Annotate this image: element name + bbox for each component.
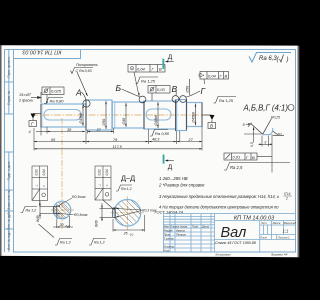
svg-text:Д: Д: [168, 54, 173, 61]
svg-text:Взам. инв. №: Взам. инв. №: [7, 190, 11, 210]
svg-text:-0,2: -0,2: [129, 233, 134, 237]
svg-text:Подп.: Подп.: [192, 225, 199, 229]
svg-text:117,5: 117,5: [113, 145, 123, 149]
svg-text:0,01: 0,01: [233, 155, 241, 160]
svg-text:Лит.: Лит.: [260, 221, 267, 225]
svg-text:Н.контр.: Н.контр.: [164, 244, 175, 248]
svg-text:2 фаски: 2 фаски: [18, 99, 34, 103]
svg-text:35: 35: [124, 232, 128, 236]
svg-text:∅45k6: ∅45k6: [79, 113, 83, 124]
svg-text:3: 3: [264, 140, 266, 144]
svg-text:∅48h8: ∅48h8: [154, 115, 158, 126]
svg-text:Ra 1,2: Ra 1,2: [121, 187, 132, 191]
svg-text:Масштаб: Масштаб: [284, 221, 297, 225]
svg-text:): ): [286, 57, 289, 63]
svg-text:Инв. № подл.: Инв. № подл.: [7, 230, 11, 250]
svg-text:Копировал: Копировал: [216, 252, 231, 256]
svg-text:Ra 1,25: Ra 1,25: [219, 98, 234, 103]
svg-text:Дата: Дата: [201, 225, 209, 229]
svg-text:0,025: 0,025: [51, 89, 62, 94]
svg-text:В: В: [252, 155, 255, 160]
svg-text:Масса: Масса: [273, 221, 281, 225]
svg-text:Ra 1,2: Ra 1,2: [94, 241, 105, 245]
svg-text:Формат А4: Формат А4: [271, 252, 288, 256]
svg-text:Петров: Петров: [176, 232, 186, 236]
svg-text:Утв.: Утв.: [164, 248, 170, 252]
svg-text:⊥: ⊥: [35, 184, 39, 187]
svg-text:8И9: 8И9: [36, 215, 40, 222]
svg-text:=: =: [105, 185, 109, 187]
svg-text:1 260...285 НВ: 1 260...285 НВ: [159, 176, 188, 181]
svg-text:Справ. №: Справ. №: [7, 90, 11, 105]
svg-text:0,04: 0,04: [105, 169, 109, 175]
svg-text:В: В: [225, 74, 228, 79]
svg-text:∅45k6: ∅45k6: [192, 112, 196, 123]
svg-text:Сталь 45 ГОСТ 1050-88: Сталь 45 ГОСТ 1050-88: [215, 241, 256, 245]
svg-text:А: А: [75, 88, 82, 98]
svg-text:R0,3max: R0,3max: [72, 195, 86, 199]
svg-text:С Ra 0,63: С Ra 0,63: [76, 69, 92, 73]
svg-text:R0,3max: R0,3max: [74, 213, 88, 217]
svg-text:0,5: 0,5: [250, 142, 254, 147]
svg-text:Лист: Лист: [259, 235, 268, 239]
svg-text:0,04: 0,04: [137, 67, 146, 72]
svg-text:Перв. примен.: Перв. примен.: [7, 56, 11, 77]
svg-text:Ra 6,3: Ra 6,3: [259, 56, 277, 62]
svg-text:Д: Д: [168, 164, 173, 171]
svg-text:Пров.: Пров.: [164, 232, 171, 236]
svg-text:Подп. и дата: Подп. и дата: [7, 161, 11, 180]
svg-text:2 *Размер для справок: 2 *Размер для справок: [158, 183, 205, 188]
svg-text:⊥: ⊥: [98, 184, 102, 187]
svg-text:15×45°: 15×45°: [19, 93, 32, 97]
svg-text:Т.контр.: Т.контр.: [164, 236, 175, 240]
svg-text:Изм: Изм: [164, 225, 169, 229]
svg-text:1:1: 1:1: [283, 229, 289, 234]
svg-text:№ докум.: № докум.: [177, 225, 189, 229]
svg-text:8И9: 8И9: [95, 220, 99, 227]
svg-text:В: В: [172, 84, 178, 94]
svg-text:Разраб.: Разраб.: [164, 228, 174, 232]
svg-text:Инв. № дубл.: Инв. № дубл.: [7, 210, 11, 230]
svg-text:0,02: 0,02: [98, 169, 102, 175]
svg-text:Полировать: Полировать: [76, 63, 98, 67]
svg-text:0,04: 0,04: [208, 74, 217, 79]
svg-text:Вал: Вал: [221, 225, 247, 241]
svg-text:Ra 2,5: Ra 2,5: [230, 165, 243, 170]
svg-text:Иванов: Иванов: [176, 228, 185, 232]
svg-text:КП ТМ 14.00.03: КП ТМ 14.00.03: [234, 215, 275, 221]
svg-text:Ra 1,2: Ra 1,2: [60, 241, 71, 245]
svg-text:3 Неуказанные предельные откл: 3 Неуказанные предельные отклонения разм…: [159, 194, 280, 199]
svg-text:0,04: 0,04: [42, 169, 46, 175]
svg-text:27: 27: [188, 138, 194, 142]
svg-text:Ra 0,80: Ra 0,80: [50, 99, 65, 104]
svg-text:∅50: ∅50: [186, 86, 190, 93]
svg-text:Листов 1: Листов 1: [277, 235, 290, 239]
svg-text:Ra 0,80: Ra 0,80: [155, 131, 170, 136]
svg-text:0,02: 0,02: [35, 169, 39, 175]
svg-text:2: 2: [285, 197, 288, 201]
svg-text:4: 4: [29, 130, 31, 134]
svg-text:КП ТМ 14.00.03: КП ТМ 14.00.03: [23, 48, 62, 54]
svg-text:=: =: [42, 185, 46, 187]
svg-text:IT14: IT14: [284, 192, 291, 196]
svg-text:В: В: [159, 67, 162, 72]
svg-text:48,3: 48,3: [152, 138, 160, 142]
svg-text:R0,25: R0,25: [271, 116, 280, 120]
svg-text:Ra 1,2: Ra 1,2: [26, 209, 37, 213]
svg-text:Ra 1,25: Ra 1,25: [141, 79, 156, 84]
svg-text:R1: R1: [278, 133, 282, 137]
svg-text:Б: Б: [116, 83, 122, 93]
svg-text:В: В: [210, 124, 213, 129]
svg-text:Д–Д: Д–Д: [121, 174, 135, 183]
svg-text:0,03: 0,03: [157, 87, 166, 92]
svg-text:∅50: ∅50: [102, 119, 106, 126]
svg-text:А,Б,В,Г (4:1): А,Б,В,Г (4:1): [243, 104, 289, 113]
